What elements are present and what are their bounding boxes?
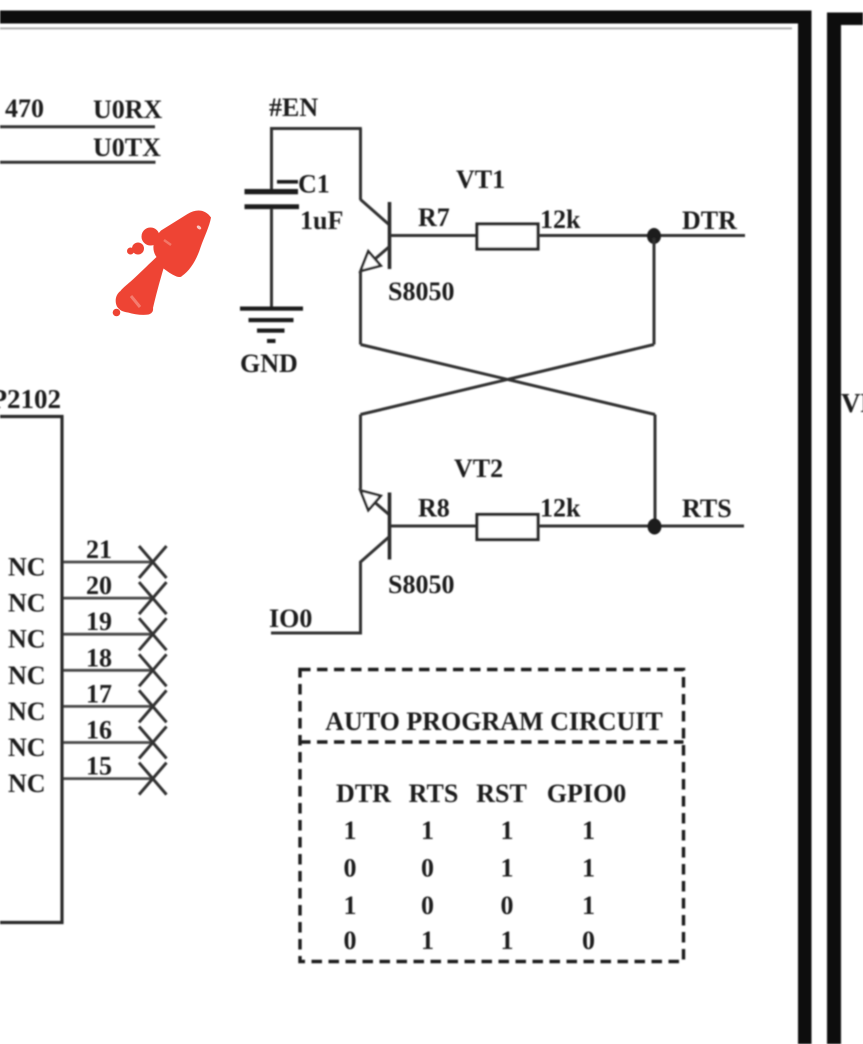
svg-text:R8: R8: [418, 494, 450, 523]
wire cross-couple VT1 emitter to RTS node: [361, 345, 656, 415]
wire U0TX: [0, 161, 156, 164]
svg-text:VT2: VT2: [454, 454, 503, 483]
svg-text:1uF: 1uF: [300, 206, 343, 235]
wire R7 to DTR: [538, 234, 745, 237]
svg-text:1: 1: [421, 816, 434, 845]
wire down to RTS junction: [654, 415, 657, 527]
svg-text:0: 0: [344, 926, 357, 955]
svg-text:0: 0: [421, 891, 434, 920]
resistor R8: [477, 515, 538, 540]
svg-text:GND: GND: [240, 349, 298, 378]
svg-text:S8050: S8050: [388, 277, 454, 306]
dashed divider line: [300, 740, 684, 743]
pin 18: [8, 643, 167, 690]
wire R8 to RTS: [538, 525, 744, 528]
table row 1: [344, 816, 596, 845]
svg-text:DTR: DTR: [336, 779, 391, 808]
svg-text:19: 19: [86, 607, 112, 636]
wire #EN down to VT1 collector: [359, 129, 362, 201]
svg-text:NC: NC: [8, 553, 46, 582]
svg-text:RTS: RTS: [682, 494, 732, 523]
capacitor C1: [245, 180, 300, 209]
ground: [240, 307, 303, 344]
svg-text:17: 17: [86, 679, 112, 708]
transistor VT2 (S8050): [361, 490, 390, 562]
pin 17: [8, 679, 167, 726]
wire #EN horizontal: [271, 127, 362, 130]
svg-text:VT1: VT1: [456, 165, 505, 194]
wire VT1 emitter down: [359, 271, 362, 345]
frame border: faint inner line under top bar: [0, 28, 792, 30]
svg-text:CP2102: CP2102: [0, 384, 61, 414]
pin 20: [8, 571, 167, 618]
frame border: main sheet right bar: [798, 11, 812, 1044]
svg-text:20: 20: [86, 571, 112, 600]
svg-text:GPIO0: GPIO0: [547, 779, 626, 808]
pin 16: [8, 716, 167, 763]
wire down to VT2 emitter: [359, 415, 362, 490]
svg-text:16: 16: [86, 716, 112, 745]
wire IO0: [271, 632, 362, 635]
wire VT2 collector down: [359, 561, 362, 633]
frame border: adjacent sheet left bar: [827, 13, 841, 1044]
svg-text:VD: VD: [841, 388, 863, 418]
svg-text:AUTO PROGRAM CIRCUIT: AUTO PROGRAM CIRCUIT: [325, 707, 663, 736]
wire #EN to capacitor: [270, 127, 273, 192]
svg-text:NC: NC: [8, 733, 46, 762]
pin 19: [8, 607, 167, 654]
svg-text:NC: NC: [8, 661, 46, 690]
svg-text:RTS: RTS: [409, 779, 459, 808]
svg-text:0: 0: [344, 854, 357, 883]
svg-text:1: 1: [421, 926, 434, 955]
svg-text:1: 1: [344, 816, 357, 845]
svg-text:1: 1: [501, 926, 514, 955]
svg-text:IO0: IO0: [269, 604, 312, 633]
pin 21: [8, 535, 167, 582]
wire DTR node down: [653, 238, 656, 345]
resistor R7: [477, 224, 538, 249]
IC U1 CP2102 body right edge: [60, 415, 63, 924]
svg-text:NC: NC: [8, 589, 46, 618]
chip top edge: [0, 415, 64, 418]
pin 15: [8, 752, 167, 799]
table row 4: [344, 926, 596, 955]
svg-text:15: 15: [86, 752, 112, 781]
table row 3: [344, 891, 596, 920]
frame border: adjacent sheet top bar: [827, 13, 863, 26]
wire VT1 base to R7: [390, 234, 477, 237]
svg-text:470: 470: [5, 94, 44, 123]
wire U0RX: [0, 125, 155, 128]
table row 2: [344, 854, 596, 883]
svg-text:#EN: #EN: [269, 93, 318, 122]
svg-text:12k: 12k: [540, 205, 581, 234]
chip bottom edge: [0, 921, 64, 924]
svg-text:DTR: DTR: [682, 206, 737, 235]
svg-text:12k: 12k: [540, 494, 581, 523]
wire VT2 base to R8: [390, 525, 477, 528]
red annotation arrow: [113, 211, 211, 317]
svg-text:NC: NC: [8, 625, 46, 654]
wire cross-couple DTR node to VT2 emitter: [361, 345, 655, 415]
node RTS junction dot: [648, 519, 662, 535]
svg-text:0: 0: [501, 891, 514, 920]
svg-text:NC: NC: [8, 697, 46, 726]
svg-text:0: 0: [421, 854, 434, 883]
auto program circuit table: dashed outer box: [300, 670, 684, 962]
svg-text:S8050: S8050: [388, 570, 454, 599]
svg-text:1: 1: [344, 891, 357, 920]
svg-text:18: 18: [86, 643, 112, 672]
svg-text:1: 1: [582, 816, 595, 845]
svg-text:NC: NC: [8, 769, 46, 798]
svg-text:0: 0: [582, 926, 595, 955]
svg-text:1: 1: [582, 854, 595, 883]
svg-text:R7: R7: [418, 203, 450, 232]
frame border: main sheet top bar: [0, 11, 810, 24]
node DTR junction dot: [647, 228, 661, 244]
svg-text:C1: C1: [298, 170, 330, 199]
svg-text:1: 1: [582, 891, 595, 920]
transistor VT1 (S8050): [361, 200, 390, 272]
wire capacitor to ground: [270, 209, 273, 308]
svg-text:U0TX: U0TX: [93, 133, 161, 162]
svg-text:1: 1: [501, 816, 514, 845]
svg-text:RST: RST: [476, 779, 527, 808]
svg-text:1: 1: [501, 854, 514, 883]
svg-text:21: 21: [86, 535, 112, 564]
svg-text:U0RX: U0RX: [93, 95, 163, 124]
